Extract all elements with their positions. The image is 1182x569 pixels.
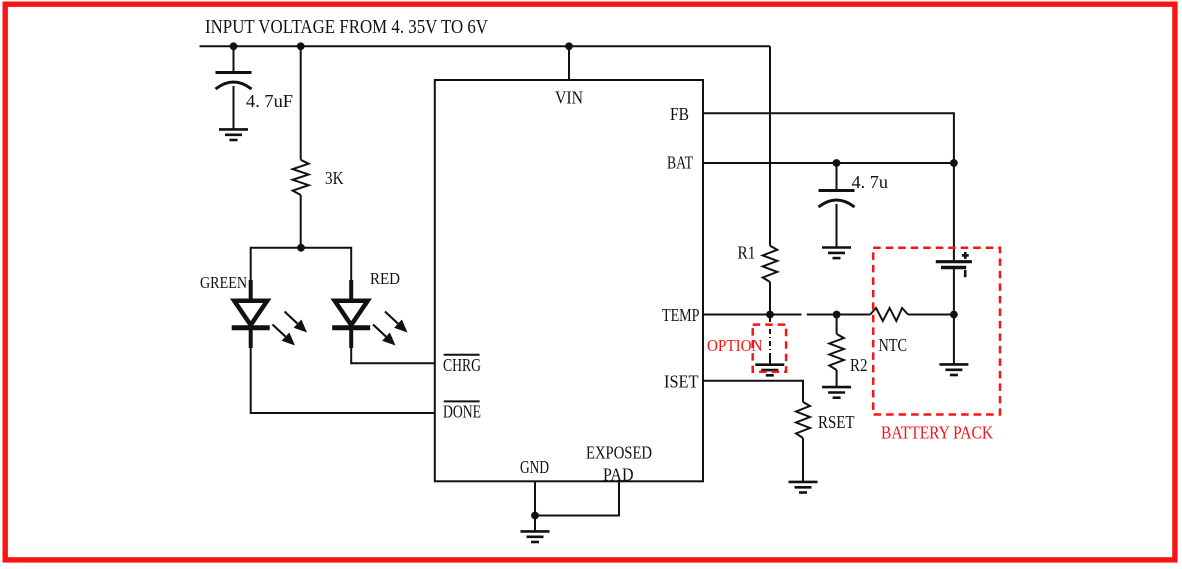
svg-text:DONE: DONE bbox=[443, 402, 481, 422]
wire: R1 bottom lead bbox=[769, 282, 771, 315]
wire: CHRG net bbox=[351, 362, 436, 364]
wire: battery positive lead bbox=[953, 163, 955, 260]
wire: C2 top lead bbox=[836, 163, 838, 191]
wire: VIN rail to R1 bbox=[769, 46, 771, 246]
wire: NTC to battery node bbox=[908, 314, 954, 316]
svg-text:VIN: VIN bbox=[555, 88, 583, 108]
junction: BAT / C2 bbox=[833, 159, 841, 167]
svg-text:OPTION: OPTION bbox=[707, 336, 763, 355]
wire: DONE net bbox=[251, 412, 436, 414]
wire: R2 top lead bbox=[836, 315, 838, 335]
wire: 3K top lead bbox=[300, 46, 302, 160]
svg-text:4. 7u: 4. 7u bbox=[852, 172, 889, 192]
battery B1 positive plate bbox=[936, 260, 972, 263]
svg-text:TEMP: TEMP bbox=[662, 305, 700, 325]
resistor R1 bbox=[763, 246, 778, 282]
wire: optional dotted ground link bbox=[769, 317, 771, 355]
LED GREEN bbox=[249, 280, 253, 302]
LED GREEN light arrow 2 bbox=[273, 325, 286, 337]
battery pack box (red dashed) bbox=[873, 248, 1000, 415]
battery B1 minus tick bbox=[964, 270, 967, 277]
overline: DONE bbox=[444, 400, 480, 402]
ground: RSET bbox=[789, 481, 818, 484]
resistor R2 bbox=[829, 334, 844, 370]
wire: exposed pad pin down bbox=[535, 481, 619, 515]
option box (red dashed) bbox=[753, 325, 786, 372]
wire: battery negative lead bbox=[953, 269, 955, 315]
wire: GND pin down bbox=[534, 481, 536, 515]
svg-text:BATTERY PACK: BATTERY PACK bbox=[881, 423, 993, 443]
ground: battery pack bbox=[939, 363, 968, 366]
wire: RED cathode down bbox=[350, 347, 352, 364]
wire: C1 top lead bbox=[233, 46, 235, 72]
junction: BAT / FB / battery bbox=[950, 159, 958, 167]
capacitor C2 4.7u bbox=[819, 189, 855, 192]
svg-text:EXPOSED: EXPOSED bbox=[586, 443, 652, 463]
wire: ISET net bbox=[703, 381, 803, 402]
svg-text:INPUT VOLTAGE FROM 4. 35V TO 6: INPUT VOLTAGE FROM 4. 35V TO 6V bbox=[205, 17, 488, 38]
junction: rail / C1 bbox=[230, 42, 238, 50]
wire: RED LED anode drop bbox=[350, 247, 352, 281]
wire: 3K bottom lead bbox=[300, 195, 302, 248]
svg-text:RSET: RSET bbox=[818, 412, 855, 432]
wire: GREEN LED anode drop bbox=[250, 247, 252, 281]
wire: TEMP net segment to R2 bbox=[807, 314, 870, 316]
svg-text:BAT: BAT bbox=[667, 152, 693, 172]
LED GREEN light arrow 1 bbox=[285, 312, 298, 324]
wire: battery pack ground lead bbox=[953, 315, 955, 365]
svg-text:R1: R1 bbox=[738, 243, 756, 263]
svg-text:NTC: NTC bbox=[879, 335, 908, 355]
overline: CHRG bbox=[444, 354, 480, 356]
wire: VIN pin bbox=[568, 46, 570, 80]
op-amp/IC U1 charger body bbox=[435, 80, 703, 481]
resistor 3K bbox=[293, 160, 309, 195]
svg-text:GND: GND bbox=[520, 457, 549, 477]
resistor RSET bbox=[796, 402, 810, 438]
ground: R2 bbox=[822, 386, 851, 389]
svg-text:CHRG: CHRG bbox=[443, 355, 481, 375]
junction: rail / 3K resistor bbox=[297, 42, 305, 50]
svg-text:R2: R2 bbox=[850, 355, 868, 375]
LED RED light arrow 1 bbox=[385, 312, 398, 324]
svg-text:4. 7uF: 4. 7uF bbox=[246, 91, 293, 111]
ground: main GND bbox=[521, 530, 550, 533]
wire: C2 bottom lead bbox=[836, 204, 838, 248]
LED RED light arrow 2 bbox=[373, 325, 386, 337]
junction: rail / VIN bbox=[565, 42, 573, 50]
junction: battery / NTC / ground bbox=[950, 311, 958, 319]
battery B1 negative plate bbox=[941, 266, 966, 269]
wire: FB net bbox=[703, 113, 954, 163]
svg-text:FB: FB bbox=[670, 104, 689, 124]
svg-text:ISET: ISET bbox=[664, 372, 699, 392]
wire: BAT net bbox=[703, 162, 954, 164]
ground: C2 bbox=[822, 246, 851, 249]
junction: TEMP / R2 bbox=[833, 311, 841, 319]
wire: LED anode rail bbox=[251, 247, 352, 249]
junction: GND / exposed pad bbox=[531, 512, 539, 520]
junction: 3K / LED rail bbox=[297, 244, 305, 252]
junction: TEMP / R1 / option bbox=[766, 311, 774, 319]
LED RED bbox=[349, 280, 353, 302]
wire: R2 bottom lead bbox=[836, 370, 838, 387]
capacitor C1 4.7uF bbox=[216, 71, 252, 74]
wire: TEMP pin to R1 node bbox=[703, 314, 802, 316]
wire: input rail bbox=[200, 45, 771, 47]
svg-text:GREEN: GREEN bbox=[200, 273, 247, 292]
wire: C1 bottom lead bbox=[233, 86, 235, 129]
svg-text:RED: RED bbox=[370, 269, 400, 288]
wire: GREEN cathode down bbox=[250, 347, 252, 414]
wire: GND ground lead bbox=[534, 516, 536, 532]
ground: option bbox=[755, 363, 784, 366]
ground: C1 bbox=[219, 128, 248, 131]
svg-text:3K: 3K bbox=[325, 168, 344, 188]
wire: RSET bottom lead bbox=[802, 438, 804, 482]
thermistor NTC bbox=[870, 308, 908, 321]
battery B1 plus sign bbox=[962, 254, 969, 257]
